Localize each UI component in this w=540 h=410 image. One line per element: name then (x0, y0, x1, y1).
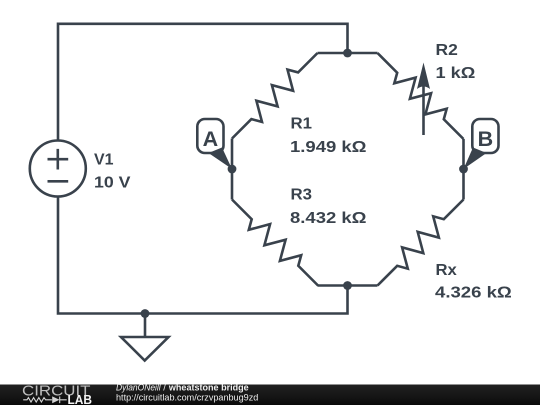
node A box (197, 119, 223, 153)
junction top node (343, 49, 352, 58)
svg-text:wheatstone bridge: wheatstone bridge (168, 382, 249, 392)
R2 arrow head (417, 63, 430, 90)
resistor R3 (232, 200, 318, 286)
wire top-left loop (58, 24, 348, 141)
wire bottom loop (58, 197, 348, 314)
svg-text:10 V: 10 V (94, 175, 131, 192)
wire node A vertical (231, 139, 234, 200)
junction node A (228, 165, 237, 174)
svg-text:R3: R3 (291, 187, 313, 204)
wire ground stub (144, 314, 147, 338)
node B box (472, 119, 498, 153)
svg-text:4.326 kΩ: 4.326 kΩ (435, 285, 512, 302)
junction bottom node (343, 281, 352, 290)
resistor R1 (232, 53, 318, 139)
V1 plus sign (48, 149, 69, 170)
svg-text:/: / (163, 382, 166, 392)
svg-text:B: B (478, 127, 494, 151)
svg-text:R1: R1 (291, 116, 313, 133)
svg-text:1 kΩ: 1 kΩ (436, 65, 476, 82)
voltage source V1 circle (30, 141, 86, 197)
logo resistor-diode symbol (23, 397, 66, 404)
junction node B (459, 165, 468, 174)
V1 minus sign (48, 180, 69, 183)
wire bottom node horizontal (318, 284, 378, 287)
svg-text:A: A (203, 127, 219, 151)
wire top node horizontal (318, 52, 378, 55)
svg-text:Rx: Rx (436, 262, 457, 279)
svg-text:http://circuitlab.com/crzvpanb: http://circuitlab.com/crzvpanbug9zd (116, 392, 258, 402)
logo diode triangle (52, 396, 59, 403)
wire node B vertical (462, 139, 465, 200)
svg-text:LAB: LAB (68, 392, 93, 405)
footer bar (0, 385, 540, 406)
svg-text:DylanONeill: DylanONeill (116, 382, 162, 392)
ground (121, 337, 169, 361)
R2 arrow shaft (422, 84, 425, 135)
svg-text:V1: V1 (94, 152, 114, 169)
junction ground (141, 309, 150, 318)
svg-text:R2: R2 (436, 42, 458, 59)
resistor Rx (378, 200, 464, 286)
svg-text:1.949 kΩ: 1.949 kΩ (290, 139, 367, 156)
resistor R2 zigzag (378, 53, 464, 139)
node B pointer (464, 148, 487, 170)
svg-text:8.432 kΩ: 8.432 kΩ (290, 210, 367, 227)
node A pointer (209, 148, 233, 170)
